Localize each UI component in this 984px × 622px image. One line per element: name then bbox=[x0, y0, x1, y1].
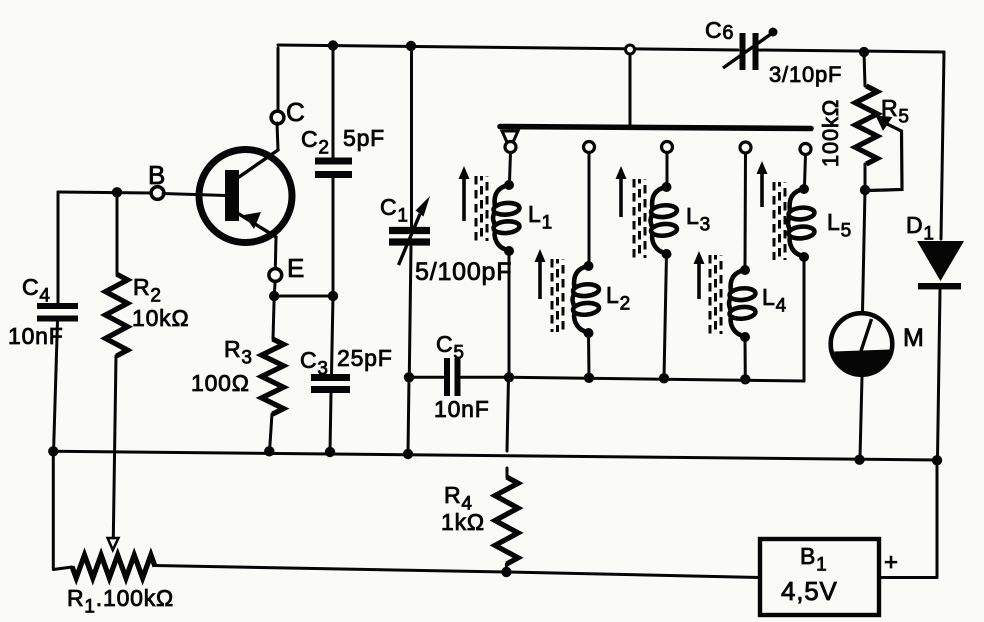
adjustable core L3 bbox=[616, 166, 646, 258]
transistor Q1 collector lead bbox=[239, 150, 278, 177]
label L2 bbox=[606, 282, 631, 315]
capacitor C2 plates bbox=[315, 161, 352, 175]
label R4 bbox=[444, 482, 473, 515]
wire R4 upper lead stub bbox=[506, 468, 509, 477]
wire R5 lower lead bbox=[864, 164, 867, 188]
node coil-bar tap circle bbox=[626, 45, 635, 54]
svg-text:3/10pF: 3/10pF bbox=[769, 62, 842, 87]
label D1 bbox=[906, 212, 935, 245]
node junction dot C1 top bbox=[406, 41, 416, 51]
svg-text:10kΩ: 10kΩ bbox=[132, 305, 189, 331]
label B bbox=[148, 160, 166, 190]
capacitor C6 trimmer arrow bbox=[723, 28, 778, 69]
label L1 bbox=[528, 201, 553, 234]
wire R4 upper lead bbox=[507, 378, 509, 452]
node junction dot L3 bus bbox=[659, 373, 669, 383]
node junction dot L4 bus bbox=[740, 374, 750, 384]
capacitor C1 arrow bbox=[399, 196, 431, 265]
potentiometer R1 zigzag bbox=[72, 555, 155, 578]
socket circle L3 bbox=[662, 142, 673, 153]
diode D1 cathode bar bbox=[918, 283, 961, 289]
label C6 bbox=[705, 17, 734, 44]
inductor L1 coil bbox=[493, 185, 520, 250]
svg-text:5pF: 5pF bbox=[343, 125, 385, 151]
label C2 bbox=[301, 126, 330, 159]
wire E to C3 horizontal bbox=[274, 295, 333, 298]
node dot L4 bottom bbox=[740, 332, 750, 342]
inductor L3 coil bbox=[651, 187, 678, 253]
svg-text:10nF: 10nF bbox=[434, 396, 490, 422]
wire collector vertical bbox=[277, 48, 280, 112]
wire coil bottom bus bbox=[509, 377, 804, 381]
svg-text:C: C bbox=[286, 97, 306, 127]
wire L1 lower lead bbox=[508, 251, 511, 377]
wire R3 lower lead bbox=[270, 414, 272, 450]
label R2 value bbox=[132, 305, 189, 331]
svg-text:1kΩ: 1kΩ bbox=[441, 509, 485, 535]
capacitor C4 plates bbox=[37, 306, 78, 319]
label B1 bbox=[800, 543, 828, 576]
node junction dot C2 top bbox=[328, 40, 338, 50]
adjustable core L2 bbox=[535, 249, 564, 332]
wire C5 left lead bbox=[409, 376, 443, 379]
label M bbox=[903, 324, 925, 352]
label L4 bbox=[762, 284, 787, 317]
node junction dot R4 bottom bbox=[501, 567, 511, 577]
node dot L3 top bbox=[662, 182, 672, 192]
node junction dot R5 bottom bbox=[860, 185, 870, 195]
label B1 value bbox=[781, 576, 838, 606]
label plus bbox=[884, 549, 899, 576]
node dot L3 bottom bbox=[662, 249, 672, 259]
label C4 value bbox=[8, 323, 64, 349]
label C3 value bbox=[337, 345, 393, 371]
node junction dot meter bus bbox=[854, 455, 864, 465]
inductor L5 coil bbox=[788, 189, 815, 256]
label C bbox=[286, 97, 306, 127]
wire C1 upper lead bbox=[410, 47, 413, 227]
capacitor C3 plates bbox=[311, 378, 350, 390]
svg-text:10nF: 10nF bbox=[8, 323, 64, 349]
wire L4 lower lead bbox=[744, 337, 747, 379]
node dot L2 top bbox=[584, 261, 594, 271]
wire coil-bar drop bbox=[629, 54, 632, 126]
node junction dot C1/C5 bbox=[404, 372, 414, 382]
inductor L2 coil bbox=[573, 266, 600, 332]
node dot L5 top bbox=[799, 184, 809, 194]
wire R3 upper lead bbox=[273, 296, 274, 339]
node junction dot R5 top bbox=[859, 47, 869, 57]
node terminal B circle bbox=[151, 187, 164, 200]
node terminal E circle bbox=[269, 269, 282, 282]
diode D1 triangle bbox=[917, 241, 964, 281]
wire C3 lower lead bbox=[330, 393, 331, 452]
wire right edge top bbox=[941, 52, 944, 239]
wire R2 lower lead to R1 wiper bbox=[113, 356, 116, 538]
socket circle L4 bbox=[740, 142, 751, 153]
label C4 bbox=[22, 274, 51, 307]
wire R1 left lead bbox=[53, 567, 72, 570]
potentiometer R5 zigzag bbox=[855, 86, 877, 164]
node dot L1 bottom bbox=[504, 246, 514, 256]
label C3 bbox=[300, 347, 329, 380]
wire top rail left segment bbox=[278, 45, 738, 50]
transistor Q1 body circle bbox=[199, 150, 292, 243]
label R2 bbox=[133, 274, 162, 307]
wire emitter to junction bbox=[273, 281, 277, 294]
node junction dot E bbox=[269, 291, 279, 301]
resistor R2 zigzag bbox=[106, 274, 128, 356]
transistor Q1 base bar bbox=[225, 170, 239, 221]
label C6 value bbox=[769, 62, 842, 87]
wire C2 upper lead bbox=[332, 47, 335, 159]
node dot L5 bottom bbox=[799, 252, 809, 262]
label R1 value bbox=[67, 585, 174, 618]
label C2 value bbox=[343, 125, 385, 151]
adjustable core L1 bbox=[459, 166, 488, 241]
wire meter lower lead bbox=[860, 377, 862, 458]
wire L3 socket lead bbox=[666, 153, 669, 185]
socket circle L2 bbox=[584, 142, 595, 153]
wire emitter vertical bbox=[274, 237, 278, 269]
wire C5 right lead bbox=[462, 376, 510, 379]
svg-text:5/100pF: 5/100pF bbox=[415, 258, 512, 286]
capacitor C5 plates bbox=[447, 358, 458, 396]
adjustable core L5 bbox=[757, 161, 786, 260]
wiper arrow into R1 bbox=[108, 538, 119, 550]
svg-text:M: M bbox=[903, 324, 925, 352]
wire bottom rail left bbox=[154, 566, 506, 573]
resistor R3 zigzag bbox=[262, 339, 284, 414]
selector contact triangle bbox=[502, 131, 518, 149]
wire L3 lower lead bbox=[664, 254, 667, 378]
adjustable core L4 bbox=[694, 251, 722, 334]
wire base horizontal bbox=[58, 192, 152, 193]
svg-text:100kΩ: 100kΩ bbox=[818, 99, 843, 167]
node terminal C circle bbox=[271, 111, 284, 124]
capacitor C1 plates bbox=[389, 231, 430, 243]
wire base to transistor bbox=[163, 194, 226, 196]
wire left edge drop bbox=[52, 451, 55, 568]
transistor Q1 emitter lead bbox=[239, 214, 276, 237]
wire mid bus bbox=[53, 451, 937, 460]
node junction dot R3 bottom bbox=[264, 446, 274, 456]
wire top rail right segment bbox=[757, 50, 944, 52]
wire L2 socket lead bbox=[588, 153, 591, 264]
wire L1 socket lead bbox=[510, 153, 511, 183]
transistor Q1 emitter arrow (PNP) bbox=[244, 212, 261, 229]
R5 wiper arrow bbox=[867, 116, 902, 191]
node dot L2 bottom bbox=[584, 328, 594, 338]
label E bbox=[287, 253, 305, 283]
label R3 bbox=[224, 336, 253, 369]
wire C3 upper lead bbox=[332, 296, 334, 374]
svg-text:B: B bbox=[148, 160, 166, 190]
wire C1 lower lead bbox=[409, 246, 411, 375]
wire battery minus lead bbox=[506, 572, 760, 578]
wire L5 socket lead bbox=[805, 155, 806, 187]
label C1 bbox=[380, 194, 409, 227]
node junction dot C3 top bbox=[328, 291, 338, 301]
socket circle L5 bbox=[800, 144, 811, 155]
battery B1 box bbox=[760, 539, 879, 615]
wire C4 upper lead bbox=[57, 192, 60, 303]
svg-text:C6: C6 bbox=[705, 17, 734, 44]
wire C4 lower lead bbox=[54, 321, 58, 450]
wire L4 socket lead bbox=[744, 153, 748, 267]
wire L2 lower lead bbox=[587, 333, 591, 378]
wire D1 lower lead bbox=[938, 290, 941, 458]
node junction dot base/R2 bbox=[112, 187, 122, 197]
label R3 value bbox=[191, 370, 250, 396]
wire L5 lower lead bbox=[803, 257, 806, 381]
meter M body bbox=[831, 313, 893, 375]
node junction dot L1 bus bbox=[504, 372, 514, 382]
wire R4 lower lead bbox=[505, 564, 508, 571]
selector bar bbox=[500, 127, 811, 129]
label R4 value bbox=[441, 509, 485, 535]
node junction dot D1 bus bbox=[932, 455, 942, 465]
wire meter upper lead bbox=[863, 190, 866, 312]
wire collector to transistor bbox=[277, 123, 278, 150]
label R5 value bbox=[818, 99, 843, 167]
svg-text:4,5V: 4,5V bbox=[781, 576, 838, 606]
svg-text:25pF: 25pF bbox=[337, 345, 393, 371]
label L3 bbox=[686, 203, 711, 236]
label C1 value bbox=[415, 258, 512, 286]
capacitor C6 plates bbox=[743, 33, 756, 70]
inductor L4 coil bbox=[729, 270, 756, 336]
label R5 bbox=[881, 95, 910, 128]
node junction dot C3 bottom bbox=[325, 447, 335, 457]
node junction dot C1 bus bbox=[403, 449, 413, 459]
node dot L4 top bbox=[740, 265, 750, 275]
wire right edge bottom bbox=[936, 460, 939, 577]
svg-text:E: E bbox=[287, 253, 305, 283]
wire battery plus lead bbox=[881, 576, 937, 579]
wire C2 lower lead bbox=[332, 178, 335, 294]
label C5 value bbox=[434, 396, 490, 422]
label C5 bbox=[436, 331, 465, 364]
label L5 bbox=[827, 209, 852, 242]
svg-text:+: + bbox=[884, 549, 899, 576]
socket circle L1 bbox=[505, 142, 516, 153]
node junction dot C4 bottom bbox=[48, 446, 58, 456]
node junction dot L2 bus bbox=[584, 373, 594, 383]
svg-text:100Ω: 100Ω bbox=[191, 370, 250, 396]
wire R5 upper lead bbox=[864, 52, 865, 86]
resistor R4 zigzag bbox=[495, 477, 518, 564]
wire R2 upper lead bbox=[116, 192, 119, 274]
wire C1 to bus bbox=[408, 377, 409, 453]
node dot L1 top bbox=[504, 180, 514, 190]
